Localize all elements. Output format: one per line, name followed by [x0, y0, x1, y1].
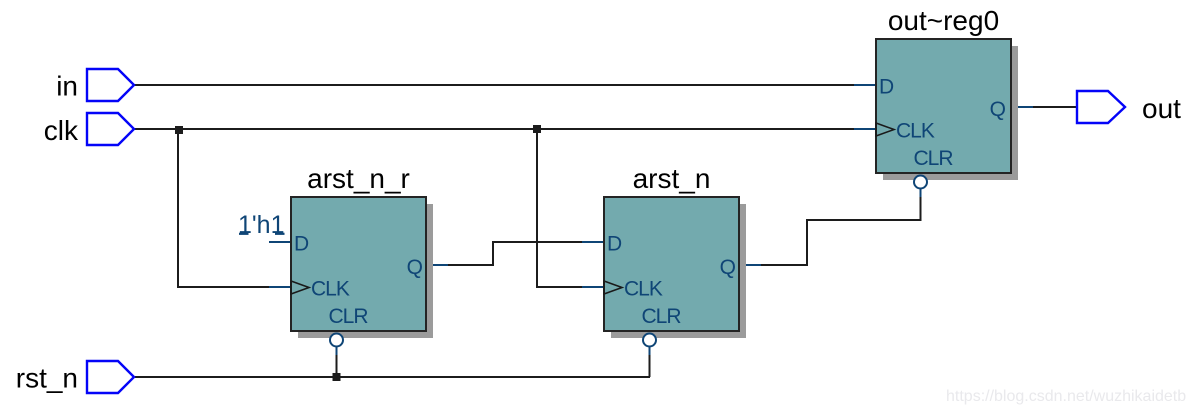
shadow of out~reg0	[883, 46, 1018, 180]
input port in	[87, 69, 134, 101]
input port clk	[87, 113, 134, 145]
output port out	[1077, 91, 1125, 123]
svg-text:arst_n_r: arst_n_r	[307, 163, 410, 194]
svg-text:in: in	[56, 71, 78, 102]
svg-text:out~reg0: out~reg0	[888, 5, 999, 36]
svg-text:Q: Q	[990, 98, 1006, 121]
wire net from arst_n pin Q to out~reg0 CLR bubble	[739, 189, 921, 265]
active-low CLR bubble of out~reg0	[914, 176, 927, 189]
svg-text:D: D	[607, 233, 622, 256]
input port rst_n	[87, 361, 134, 393]
body of arst_n_r	[291, 197, 426, 331]
wire clk branch to arst_n_r pin CLK	[178, 129, 291, 287]
svg-text:Q: Q	[407, 256, 423, 279]
svg-text:CLK: CLK	[624, 278, 663, 301]
clock edge triangle of arst_n	[604, 281, 622, 294]
svg-text:arst_n: arst_n	[633, 163, 711, 194]
wire net from arst_n_r pin Q to arst_n pin D	[426, 242, 604, 265]
svg-text:CLK: CLK	[311, 278, 350, 301]
shadow of arst_n	[611, 204, 746, 338]
svg-text:1'h1: 1'h1	[238, 211, 284, 239]
shadow of arst_n_r	[298, 204, 433, 338]
wire stub of constant into arst_n_r pin D	[239, 234, 291, 242]
junction on net rst_n at x=336	[333, 373, 341, 381]
active-low CLR bubble of arst_n_r	[330, 334, 343, 347]
svg-text:D: D	[879, 76, 894, 99]
junction on net clk at x=537	[533, 125, 541, 133]
wire net in: from input port in to out~reg0 pin D	[134, 84, 876, 86]
svg-text:CLR: CLR	[914, 147, 954, 170]
clock edge triangle of out~reg0	[876, 123, 894, 136]
clock edge triangle of arst_n_r	[291, 281, 309, 294]
body of arst_n	[604, 197, 739, 331]
svg-text:CLK: CLK	[896, 120, 935, 143]
wire rst_n branch up to arst_n_r CLR bubble	[336, 347, 338, 378]
body of out~reg0	[876, 39, 1011, 173]
flip-flop arst_n	[604, 197, 746, 347]
wire rst_n branch up to arst_n CLR bubble	[649, 347, 651, 378]
wire net out: from out~reg0 pin Q to output port out	[1011, 106, 1077, 108]
wire clk branch to arst_n pin CLK	[537, 129, 604, 287]
svg-text:CLR: CLR	[329, 305, 369, 328]
active-low CLR bubble of arst_n	[643, 334, 656, 347]
svg-text:out: out	[1142, 93, 1181, 124]
wire net clk: horizontal from input port clk to out~reg0 pin CLK	[134, 128, 876, 130]
wire net rst_n: horizontal run from input port rst_n	[135, 376, 650, 378]
svg-text:clk: clk	[44, 115, 79, 146]
svg-text:D: D	[294, 233, 309, 256]
svg-text:rst_n: rst_n	[16, 363, 78, 394]
flip-flop out~reg0	[876, 39, 1018, 189]
flip-flop arst_n_r	[291, 197, 433, 347]
junction on net clk at x=178	[175, 126, 183, 134]
svg-text:CLR: CLR	[642, 305, 682, 328]
svg-text:Q: Q	[720, 256, 736, 279]
svg-text:https://blog.csdn.net/wuzhikai: https://blog.csdn.net/wuzhikaidetb	[946, 388, 1186, 405]
